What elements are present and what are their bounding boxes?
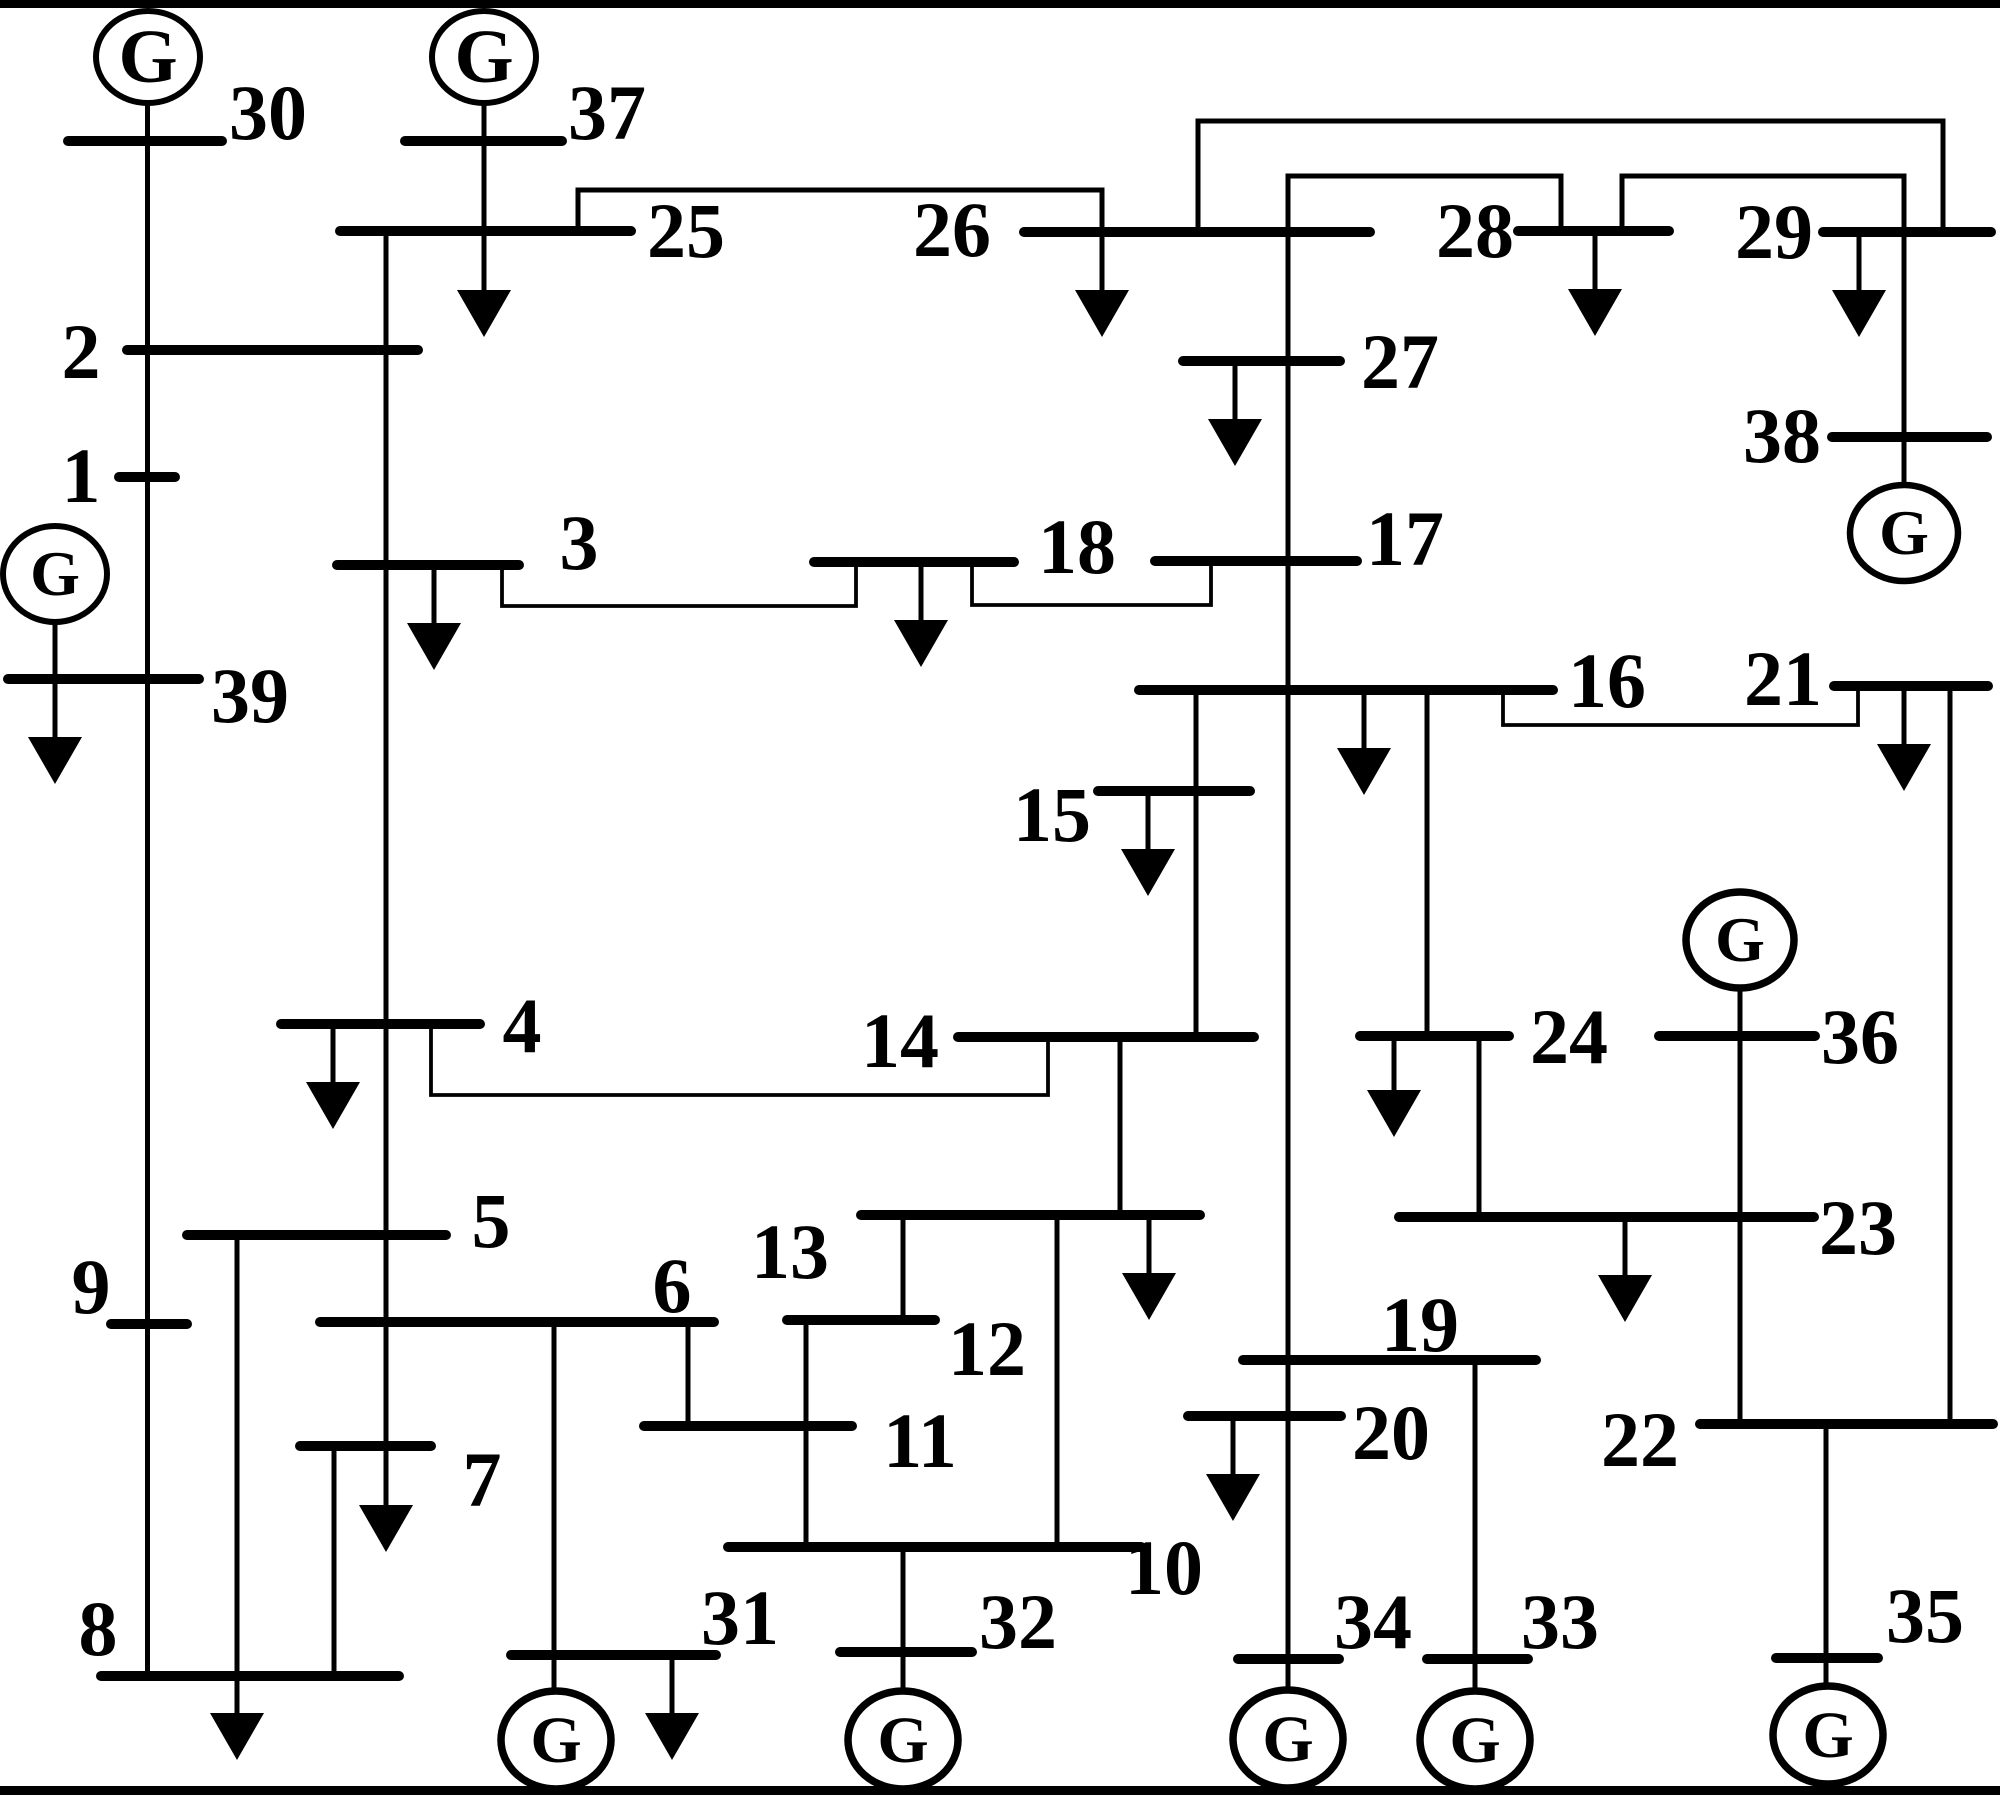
svg-text:6: 6 <box>653 1242 692 1329</box>
svg-text:32: 32 <box>979 1578 1057 1665</box>
svg-text:16: 16 <box>1568 637 1646 724</box>
svg-text:20: 20 <box>1352 1389 1430 1476</box>
svg-text:23: 23 <box>1819 1184 1897 1271</box>
svg-text:11: 11 <box>883 1397 957 1484</box>
svg-text:G: G <box>1262 1703 1313 1776</box>
svg-text:G: G <box>1715 904 1765 975</box>
svg-text:8: 8 <box>79 1585 118 1672</box>
svg-text:25: 25 <box>647 187 725 274</box>
svg-text:10: 10 <box>1125 1524 1203 1611</box>
svg-text:37: 37 <box>568 69 646 156</box>
svg-text:5: 5 <box>472 1177 511 1264</box>
svg-text:G: G <box>118 15 177 99</box>
svg-text:39: 39 <box>211 652 289 739</box>
svg-text:38: 38 <box>1743 392 1821 479</box>
svg-text:15: 15 <box>1013 771 1091 858</box>
svg-text:3: 3 <box>560 499 599 586</box>
svg-text:G: G <box>1449 1704 1500 1777</box>
svg-text:28: 28 <box>1436 187 1514 274</box>
svg-text:12: 12 <box>948 1305 1026 1392</box>
svg-text:26: 26 <box>913 186 991 273</box>
svg-text:30: 30 <box>229 69 307 156</box>
svg-text:G: G <box>454 15 513 99</box>
svg-text:18: 18 <box>1038 503 1116 590</box>
svg-text:14: 14 <box>861 997 939 1084</box>
svg-text:G: G <box>1802 1699 1853 1772</box>
svg-text:36: 36 <box>1821 993 1899 1080</box>
svg-text:17: 17 <box>1366 495 1444 582</box>
svg-text:27: 27 <box>1361 318 1439 405</box>
svg-text:G: G <box>530 1704 581 1777</box>
svg-text:29: 29 <box>1735 188 1813 275</box>
svg-text:4: 4 <box>503 982 542 1069</box>
svg-text:2: 2 <box>62 308 101 395</box>
svg-text:35: 35 <box>1886 1572 1964 1659</box>
svg-text:G: G <box>1879 497 1929 568</box>
svg-text:34: 34 <box>1334 1578 1412 1665</box>
svg-text:21: 21 <box>1744 635 1822 722</box>
svg-text:31: 31 <box>701 1574 779 1661</box>
svg-text:22: 22 <box>1601 1396 1679 1483</box>
svg-text:G: G <box>877 1704 928 1777</box>
svg-text:7: 7 <box>463 1436 502 1523</box>
svg-text:19: 19 <box>1381 1281 1459 1368</box>
svg-text:1: 1 <box>62 432 101 519</box>
svg-text:9: 9 <box>72 1243 111 1330</box>
svg-text:G: G <box>30 538 80 609</box>
svg-text:33: 33 <box>1521 1578 1599 1665</box>
svg-text:13: 13 <box>751 1208 829 1295</box>
svg-text:24: 24 <box>1530 993 1608 1080</box>
